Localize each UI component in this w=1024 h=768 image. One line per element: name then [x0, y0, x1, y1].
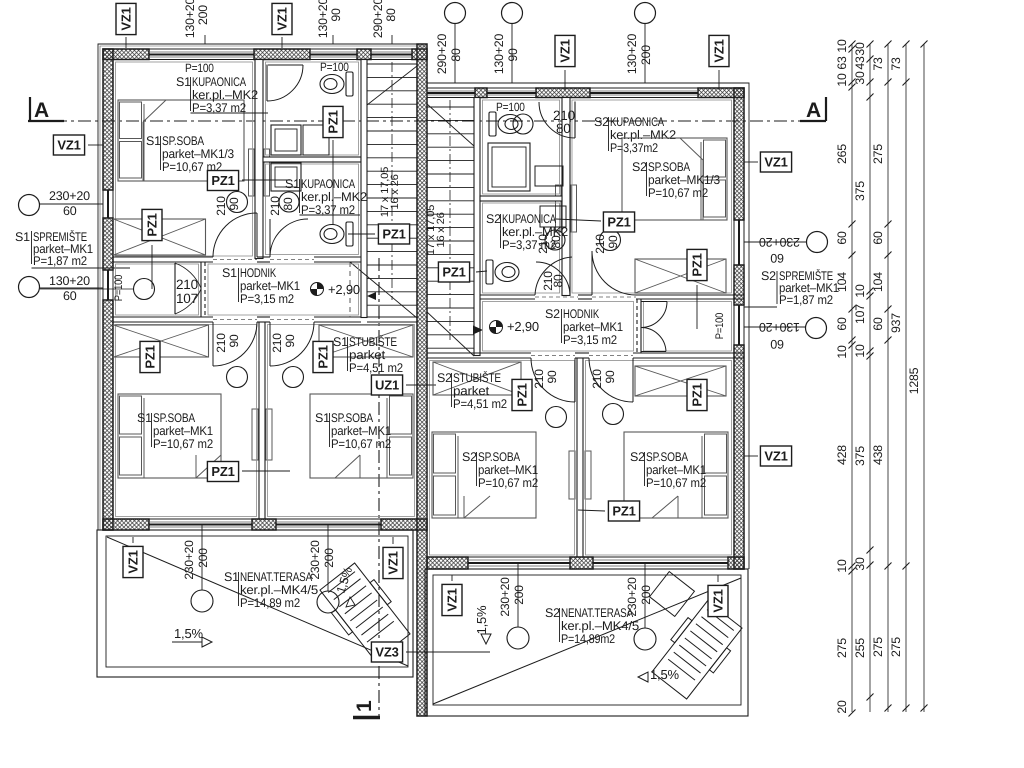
svg-text:P=100: P=100: [113, 275, 125, 301]
S2 corridor door opening dashes: [535, 296, 578, 298]
svg-text:20: 20: [835, 700, 849, 714]
staircase S1 centerline: [391, 62, 393, 300]
svg-text:428: 428: [835, 445, 849, 465]
label PZ1 wardrobe S1 top: [142, 209, 162, 240]
svg-text:S2: S2: [761, 269, 776, 283]
svg-text:90: 90: [329, 8, 343, 22]
staircase S2 arrow: [473, 326, 483, 335]
label PZ1 S1 room1: [207, 462, 238, 482]
svg-text:PZ1: PZ1: [690, 253, 705, 276]
label VZ1 S2 top pier: [564, 70, 566, 90]
label PZ1 S2 room3 wardrobe: [512, 379, 532, 410]
S1 top bedroom bed: [118, 100, 244, 181]
S2 bathroom1 sink: [513, 114, 533, 134]
staircase S2 treads: [427, 106, 474, 108]
svg-text:P=4,51 m2: P=4,51 m2: [349, 361, 403, 375]
S1 bottom wall piers: [103, 519, 149, 530]
svg-text:60: 60: [835, 231, 849, 245]
svg-text:SP.SOBA: SP.SOBA: [646, 450, 689, 464]
svg-text:SP.SOBA: SP.SOBA: [331, 411, 374, 425]
svg-text:104: 104: [871, 272, 885, 292]
svg-text:210: 210: [590, 369, 604, 389]
label VZ1 top pier 2: [281, 37, 283, 48]
label UZ1 S1: [371, 375, 402, 395]
svg-text:1,5%: 1,5%: [174, 626, 203, 641]
svg-text:S2: S2: [545, 606, 560, 620]
svg-text:210: 210: [214, 196, 228, 216]
svg-text:S1: S1: [224, 570, 239, 584]
terrace S2 sun lounger: [648, 598, 746, 702]
svg-text:+2,90: +2,90: [328, 282, 360, 297]
terrace S2 outline: [425, 569, 748, 716]
svg-text:210: 210: [541, 271, 555, 291]
S2 door to bathroom2: [535, 257, 572, 295]
svg-text:230+20: 230+20: [182, 540, 196, 580]
label PZ1 wardrobe S2 top: [687, 249, 707, 280]
S1 room2 bed: [310, 394, 413, 478]
svg-text:43: 43: [853, 56, 867, 70]
staircase S1 bottom diagonal: [350, 262, 417, 318]
svg-text:parket–MK1/3: parket–MK1/3: [162, 147, 234, 161]
svg-text:200: 200: [512, 585, 526, 605]
S1 wall between bathrooms: [263, 157, 361, 162]
S2 right wall segments: [734, 88, 744, 220]
label PZ1 S1 bathroom1: [323, 106, 343, 137]
svg-text:937: 937: [889, 313, 903, 333]
svg-text:parket–MK1: parket–MK1: [331, 424, 391, 438]
label VZ1 terrace S2 right: [708, 585, 728, 616]
S1 door to top bedroom: [213, 213, 257, 257]
section line A-A: [30, 120, 806, 122]
svg-text:P=100: P=100: [496, 100, 525, 114]
label PZ1 S1 room2 wardrobe: [313, 341, 333, 372]
section line 1-1: [378, 258, 380, 716]
section marker A right: [825, 97, 827, 121]
label PZ1 S2 kupaonica leader: [603, 212, 634, 232]
S2 wall bathroom/bedroom column: [562, 98, 570, 296]
S2 bathroom2 box: [540, 206, 566, 227]
svg-text:230+20: 230+20: [308, 540, 322, 580]
svg-text:P=3,37 m2: P=3,37 m2: [502, 238, 556, 252]
svg-text:VZ1: VZ1: [57, 138, 80, 153]
S1 room2 wardrobe: [319, 325, 413, 357]
svg-text:ker.pl.–MK4/5: ker.pl.–MK4/5: [561, 619, 639, 633]
svg-text:KUPAONICA: KUPAONICA: [192, 75, 247, 89]
svg-text:VZ1: VZ1: [126, 550, 141, 573]
party wall S1/S2: [417, 44, 427, 716]
S1 facade offset line: [98, 44, 427, 530]
svg-text:30: 30: [853, 42, 867, 56]
svg-text:SP.SOBA: SP.SOBA: [153, 411, 196, 425]
svg-text:PZ1: PZ1: [607, 215, 630, 230]
svg-text:A: A: [34, 99, 49, 122]
S2 spremiste wall with door: [640, 299, 642, 353]
svg-text:VZ1: VZ1: [764, 449, 787, 464]
svg-text:30: 30: [853, 557, 867, 571]
svg-text:438: 438: [871, 445, 885, 465]
svg-text:VZ1: VZ1: [119, 7, 134, 30]
svg-text:VZ1: VZ1: [711, 589, 726, 612]
svg-text:1: 1: [353, 700, 376, 712]
svg-text:60: 60: [871, 231, 885, 245]
staircase S2 bottom diagonal: [427, 312, 474, 356]
label PZ1 S2 rooms: [608, 501, 639, 521]
S1 corridor door opening dashes: [213, 259, 257, 261]
svg-text:ker.pl.–MK4/5: ker.pl.–MK4/5: [240, 583, 318, 597]
svg-text:P=1,87 m2: P=1,87 m2: [33, 254, 87, 268]
svg-text:P=3,37m2: P=3,37m2: [610, 141, 658, 155]
svg-text:90: 90: [545, 370, 559, 383]
svg-text:230+20: 230+20: [498, 577, 512, 617]
svg-text:parket–MK1: parket–MK1: [563, 320, 623, 334]
svg-text:P=10,67 m2: P=10,67 m2: [478, 476, 538, 490]
S2 spremiste double door: [641, 301, 667, 303]
S1 room1 wardrobe: [114, 325, 209, 357]
svg-text:P=4,51 m2: P=4,51 m2: [453, 397, 507, 411]
svg-text:10: 10: [835, 345, 849, 359]
svg-text:VZ1: VZ1: [558, 39, 573, 62]
svg-text:S2: S2: [594, 115, 609, 129]
svg-text:80: 80: [556, 121, 571, 136]
staircase S2 top landing diagonal: [427, 104, 474, 146]
svg-text:230+20: 230+20: [49, 189, 90, 203]
svg-text:60: 60: [63, 289, 77, 303]
svg-text:210: 210: [214, 333, 228, 353]
svg-text:60: 60: [835, 317, 849, 331]
S1 top bedroom wardrobe: [114, 219, 206, 255]
terrace S2 circle left: [507, 627, 529, 649]
svg-text:PZ1: PZ1: [382, 227, 405, 242]
svg-text:1,5%: 1,5%: [474, 605, 489, 634]
label PZ1 S1 bed leader: [207, 171, 238, 191]
svg-text:255: 255: [853, 638, 867, 658]
S1 spremiste wall with door: [200, 262, 202, 317]
svg-text:+2,90: +2,90: [507, 319, 539, 334]
svg-text:ker.pl.–MK2: ker.pl.–MK2: [301, 190, 367, 204]
S2 top wall windows: [427, 87, 475, 89]
svg-text:KUPAONICA: KUPAONICA: [502, 212, 557, 226]
S2 bathroom2 toilet: [486, 260, 519, 284]
S2 top bedroom bed: [622, 138, 727, 220]
svg-text:KUPAONICA: KUPAONICA: [301, 177, 356, 191]
svg-text:P=10,67 m2: P=10,67 m2: [648, 186, 708, 200]
svg-text:10: 10: [835, 559, 849, 573]
window mark circle 130+20/60 left: [19, 277, 40, 298]
section marker 1 bottom: [353, 716, 380, 720]
svg-text:P=10,67 m2: P=10,67 m2: [153, 437, 213, 451]
svg-text:VZ1: VZ1: [764, 155, 787, 170]
svg-text:130+20: 130+20: [625, 34, 639, 75]
svg-text:parket–MK1: parket–MK1: [478, 463, 538, 477]
window mark circle 130+20/200 S2: [635, 3, 656, 24]
svg-text:P=1,87 m2: P=1,87 m2: [779, 293, 833, 307]
svg-text:SP.SOBA: SP.SOBA: [648, 160, 691, 174]
svg-text:ker.pl.–MK2: ker.pl.–MK2: [192, 88, 258, 102]
S1 top wall piers: [103, 49, 149, 60]
S1 door to bathroom2: [270, 219, 314, 257]
svg-text:S2: S2: [462, 450, 477, 464]
window mark circle 130+20/60 right: [806, 318, 827, 339]
svg-text:90: 90: [227, 334, 241, 347]
svg-text:130+20: 130+20: [183, 0, 197, 38]
S1 room1 bed: [118, 394, 221, 478]
label VZ1 S2 right wall bottom: [760, 446, 791, 466]
label PZ1 S2 bathroom1: [438, 262, 469, 282]
svg-text:VZ1: VZ1: [445, 588, 460, 611]
S2 room4 wardrobe: [635, 366, 726, 396]
svg-text:210: 210: [270, 333, 284, 353]
S2 corridor top wall: [480, 294, 535, 296]
S2 bathroom1 toilet: [489, 112, 522, 136]
dimension ticks chain1: [849, 41, 856, 48]
terrace S2 side table: [650, 572, 695, 617]
svg-text:SP.SOBA: SP.SOBA: [478, 450, 521, 464]
svg-text:80: 80: [281, 197, 295, 210]
svg-text:S1: S1: [222, 266, 237, 280]
window mark circle 230+20/60 right: [807, 232, 828, 253]
S1 spremiste door: [174, 263, 176, 314]
S1 door to bottom room1: [213, 322, 257, 366]
svg-text:STUBIŠTE: STUBIŠTE: [349, 335, 397, 349]
S2 top wall piers: [475, 88, 487, 98]
svg-text:S2: S2: [632, 160, 647, 174]
svg-text:ker.pl.–MK2: ker.pl.–MK2: [610, 128, 676, 142]
S2 door to top bedroom: [592, 251, 636, 295]
label VZ3 terrace: [371, 642, 402, 662]
svg-text:PZ1: PZ1: [326, 110, 341, 133]
svg-text:375: 375: [853, 181, 867, 201]
svg-text:290+20: 290+20: [435, 34, 449, 75]
svg-text:parket: parket: [349, 348, 386, 362]
svg-text:PZ1: PZ1: [211, 464, 234, 479]
S1 wall bedroom/bathroom column: [255, 60, 263, 259]
svg-text:SP.SOBA: SP.SOBA: [162, 134, 205, 148]
svg-text:S2: S2: [486, 212, 501, 226]
svg-text:200: 200: [639, 45, 653, 65]
svg-text:275: 275: [871, 637, 885, 657]
svg-text:290+20: 290+20: [371, 0, 385, 38]
label VZ1 top-left pier: [125, 37, 127, 48]
terrace S1 slope diagonal: [107, 537, 408, 666]
svg-text:S1: S1: [137, 411, 152, 425]
S2 door to bottom room4: [589, 358, 633, 402]
S2 door to bottom room3: [531, 358, 575, 402]
svg-text:S1: S1: [176, 75, 191, 89]
S1 corridor top wall: [113, 256, 213, 258]
svg-text:NENAT.TERASA: NENAT.TERASA: [561, 606, 634, 620]
svg-text:P=14,89m2: P=14,89m2: [561, 632, 615, 646]
window mark circle 230+20/60 left: [19, 195, 40, 216]
staircase S2 centerline: [449, 100, 451, 340]
S1 left wall segments: [103, 49, 113, 190]
S1 bathroom1 toilet: [320, 72, 353, 96]
svg-text:PZ1: PZ1: [316, 345, 331, 368]
label VZ1 terrace S2 left: [442, 584, 462, 615]
svg-text:PZ1: PZ1: [690, 383, 705, 406]
label VZ1 left wall: [53, 135, 84, 155]
terrace S1 circle left: [191, 590, 213, 612]
staircase S1 arrow: [367, 292, 376, 300]
svg-text:A: A: [806, 99, 821, 122]
S1 door to bottom room2: [270, 322, 314, 366]
dimension ticks chain3: [885, 41, 892, 48]
S1 bathroom2 washer: [271, 163, 301, 191]
staircase S1 top landing diagonal: [367, 66, 417, 105]
S2 bedroom divider wall bottom: [576, 358, 578, 557]
svg-text:130+20: 130+20: [316, 0, 330, 38]
terrace S2 slope diagonal: [433, 578, 741, 704]
svg-text:1285: 1285: [907, 367, 921, 394]
svg-text:P=100: P=100: [320, 60, 349, 74]
svg-text:275: 275: [889, 637, 903, 657]
svg-text:S2: S2: [545, 307, 560, 321]
dimension ticks chain4: [903, 41, 910, 48]
svg-text:PZ1: PZ1: [515, 383, 530, 406]
svg-text:210: 210: [532, 369, 546, 389]
svg-text:PZ1: PZ1: [143, 345, 158, 368]
svg-text:130+20: 130+20: [49, 274, 90, 288]
S1 bathroom1 washer: [271, 125, 301, 155]
S1 bathroom2 sink: [279, 192, 299, 212]
S2 top bedroom wardrobe: [635, 259, 726, 293]
svg-text:PZ1: PZ1: [211, 173, 234, 188]
svg-text:S1: S1: [285, 177, 300, 191]
svg-text:16 x 26: 16 x 26: [389, 174, 401, 210]
svg-text:230+20: 230+20: [625, 577, 639, 617]
svg-text:30: 30: [853, 71, 867, 85]
svg-text:90: 90: [283, 334, 297, 347]
svg-text:VZ1: VZ1: [386, 551, 401, 574]
svg-text:P=100: P=100: [714, 313, 726, 339]
svg-text:parket–MK1: parket–MK1: [153, 424, 213, 438]
S2 bathroom2 sink: [545, 230, 565, 250]
svg-text:200: 200: [196, 548, 210, 568]
svg-text:107: 107: [176, 291, 198, 306]
S2 bottom wall windows: [468, 556, 570, 558]
label VZ1 right wall: [760, 152, 791, 172]
dimension chain lines right: [851, 44, 853, 712]
S1 top wall windows: [149, 48, 254, 50]
svg-text:265: 265: [835, 144, 849, 164]
svg-text:HODNIK: HODNIK: [240, 266, 277, 280]
svg-text:VZ1: VZ1: [275, 7, 290, 30]
S1 corridor stair-side dashed boundary: [349, 262, 351, 317]
S1 bathroom2 toilet: [320, 222, 353, 246]
svg-text:60: 60: [770, 337, 784, 351]
svg-text:90: 90: [506, 48, 520, 62]
svg-text:63: 63: [835, 56, 849, 70]
S1 stair wall: [361, 60, 367, 318]
svg-text:ker.pl.–MK2: ker.pl.–MK2: [502, 225, 568, 239]
S2 room3 bed: [432, 432, 536, 518]
svg-text:200: 200: [322, 548, 336, 568]
svg-text:P=100: P=100: [185, 61, 214, 75]
S2 facade offset line: [427, 83, 749, 569]
svg-text:parket–MK1/3: parket–MK1/3: [648, 173, 720, 187]
svg-text:P=3,15 m2: P=3,15 m2: [563, 333, 617, 347]
S1 bathroom1 door: [266, 65, 268, 102]
dimension ticks chain2: [867, 41, 874, 48]
terrace S1 circle right: [317, 591, 339, 613]
S2 right wall windows: [733, 220, 735, 265]
svg-text:230+20: 230+20: [759, 235, 800, 249]
level mark +2,90 S2: [490, 321, 503, 334]
svg-text:S2: S2: [630, 450, 645, 464]
S1 bedroom divider wall bottom: [258, 322, 260, 519]
level mark +2,90 S1: [311, 283, 324, 296]
svg-text:P=14,89 m2: P=14,89 m2: [240, 596, 300, 610]
svg-text:60: 60: [770, 251, 784, 265]
section marker A left: [29, 97, 31, 121]
svg-text:80: 80: [384, 8, 398, 22]
svg-text:NENAT.TERASA: NENAT.TERASA: [240, 570, 313, 584]
room finish lines S2: [572, 100, 732, 293]
svg-text:10: 10: [835, 39, 849, 53]
svg-text:S2: S2: [437, 371, 452, 385]
svg-text:S1: S1: [15, 230, 30, 244]
svg-text:VZ3: VZ3: [375, 645, 398, 660]
svg-text:90: 90: [603, 370, 617, 383]
svg-text:375: 375: [853, 446, 867, 466]
S2 wall between bathrooms: [480, 196, 562, 201]
window mark circle 290+20/80 S2: [445, 3, 466, 24]
staircase S1 treads: [367, 63, 417, 65]
svg-text:VZ1: VZ1: [712, 39, 727, 62]
svg-text:STUBIŠTE: STUBIŠTE: [453, 371, 501, 385]
label VZ1 terrace S1 right: [383, 547, 403, 578]
label PZ1 S2 room4 wardrobe: [687, 379, 707, 410]
svg-text:10: 10: [835, 73, 849, 87]
terrace S1 sun lounger: [316, 560, 414, 664]
svg-text:210: 210: [176, 277, 198, 292]
S2 bathroom1 door: [574, 102, 576, 139]
svg-text:60: 60: [871, 317, 885, 331]
S2 room3 wardrobe: [433, 362, 521, 395]
svg-text:80: 80: [449, 48, 463, 62]
svg-text:KUPAONICA: KUPAONICA: [610, 115, 665, 129]
S1 spremiste circle: [134, 279, 155, 300]
terrace S1 outline: [97, 530, 413, 677]
svg-text:275: 275: [871, 144, 885, 164]
S2 bathroom2 door: [535, 262, 537, 296]
svg-text:200: 200: [196, 5, 210, 25]
room finish lines S1: [116, 62, 253, 256]
svg-text:S1: S1: [333, 335, 348, 349]
S2 stair wall: [474, 98, 480, 356]
svg-text:PZ1: PZ1: [612, 504, 635, 519]
S1 left wall windows: [102, 190, 104, 218]
label PZ1 S1 bathroom2 toilet: [378, 224, 409, 244]
svg-text:130+20: 130+20: [759, 320, 800, 334]
label VZ1 terrace S1 left: [123, 546, 143, 577]
svg-text:107: 107: [853, 304, 867, 324]
label VZ1 S2 top-right pier: [718, 70, 720, 90]
svg-text:parket–MK1: parket–MK1: [240, 279, 300, 293]
svg-text:S1: S1: [146, 134, 161, 148]
svg-text:parket: parket: [453, 384, 490, 398]
svg-text:275: 275: [835, 638, 849, 658]
svg-text:16 x 26: 16 x 26: [435, 212, 447, 248]
svg-text:UZ1: UZ1: [375, 378, 399, 393]
S1 corridor bottom wall: [113, 316, 213, 318]
dimension ticks chain5: [921, 41, 928, 48]
window mark circle 130+20/90 S2: [502, 3, 523, 24]
svg-text:73: 73: [871, 57, 885, 71]
svg-text:S1: S1: [315, 411, 330, 425]
svg-text:P=10,67 m2: P=10,67 m2: [646, 476, 706, 490]
svg-text:PZ1: PZ1: [442, 265, 465, 280]
svg-text:parket–MK1: parket–MK1: [646, 463, 706, 477]
